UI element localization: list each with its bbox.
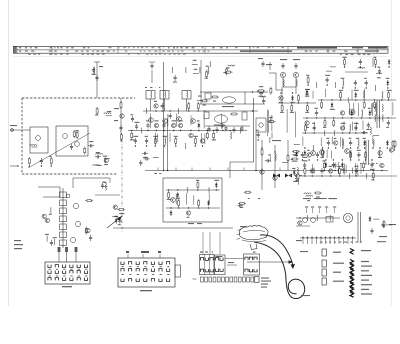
value label [341,78,345,79]
resistor R33 [226,67,228,75]
header row3 text [173,54,175,55]
plug P1 pin [205,269,208,272]
value label [340,169,344,170]
coil L13 [370,127,371,134]
header row3 text [138,54,140,55]
IF bandfilter box [160,91,169,100]
value label [53,237,57,238]
header row3 text [87,54,89,55]
wire [341,138,343,146]
resistor R18 [291,104,293,112]
junction [355,99,356,100]
value label [259,96,263,97]
junction [51,165,52,166]
wire [363,90,365,99]
AGC decoupling capacitor [95,75,98,81]
note text [364,163,366,164]
header row2 text [113,51,115,52]
wire [253,98,255,162]
sound IF bottom wire [200,103,265,105]
wire [345,165,347,174]
value label [96,152,100,153]
junction [333,117,334,118]
value label [356,138,359,139]
sound transformer box [204,112,209,119]
header row1 text [282,47,285,48]
folded wire [43,196,60,198]
junction [298,102,299,103]
header row1 text [220,47,223,48]
output transformer coil [296,79,297,86]
header row1 text [249,47,250,48]
coil L17 [343,139,344,146]
connector lead component [58,247,61,252]
header row2 text [154,51,157,52]
switch section box [60,216,67,222]
value label [349,138,352,139]
sound output tube [215,115,228,123]
resistor R31 [267,121,275,123]
connector lead component [75,247,78,252]
IF amplifier transistor T2 [163,119,168,124]
resistor R10 [206,132,208,140]
value label [49,156,52,157]
transistor T20 [260,170,264,174]
header row1 text [141,47,144,48]
resistor R28 [324,119,326,127]
junction [164,145,165,146]
header table left rule [13,46,15,53]
header row1 text [88,47,90,48]
capacitor C27 [367,122,370,128]
connector B8b pin [121,269,124,272]
video amp transistor [171,198,176,203]
sound IF transformer box [205,93,211,99]
value label [146,120,149,121]
connector B8a outline [45,262,90,284]
wire [197,99,203,101]
wire [324,89,326,97]
terminal comb tick [352,238,354,244]
terminal strip square [247,277,250,282]
wire [355,122,357,130]
capacitor C45 [237,204,243,207]
junction [388,117,389,118]
diode D21 [115,218,118,224]
header text [352,47,363,49]
terminal comb tick [325,238,327,244]
resistor R36 [270,87,272,95]
pin numbering [205,252,208,253]
header row3 text [49,54,52,55]
legend key box 2 [322,260,326,267]
sound IF top wire [200,91,268,93]
resistor R29 [333,119,335,127]
tuner enclosure dashed top [22,97,135,99]
header row2 text [144,51,146,52]
wire [73,177,110,179]
junction [312,175,313,176]
header row3 text [340,54,342,55]
header row3 text [178,54,181,55]
B8b pin mark [152,273,154,276]
junction [329,237,330,238]
wire [104,157,110,159]
wire [351,90,353,100]
tuner ganged-selector line [28,133,90,168]
resistor R45 [339,167,341,175]
junction [338,237,339,238]
AGC feed wire [96,62,98,98]
header row1 text [168,47,170,48]
value label [179,120,183,121]
wire [316,215,318,221]
wire [363,91,365,99]
resistor R52 [292,151,300,153]
junction [175,145,176,146]
resistor R22 [375,58,377,66]
header row3 text [345,54,348,55]
sound detector tube [223,97,236,103]
junction [258,139,259,140]
junction [307,84,308,85]
connector B8b pin [129,269,132,272]
wire [185,67,187,73]
junction [173,130,174,131]
wire [269,72,276,74]
terminal strip lead [193,278,197,280]
legend coil symbol 5 [350,278,354,283]
junction [170,110,171,111]
wire [371,103,373,113]
legend coil text [361,280,369,281]
legend coil text [361,261,369,262]
wire [339,137,341,146]
connector B8a pin [63,271,66,274]
capacitor C24 [354,125,357,131]
value label [213,101,216,102]
plug P1 pin [210,269,213,272]
wire [287,140,289,170]
value label [268,154,271,155]
wire [378,115,380,121]
resistor R15 [201,100,209,102]
transistor T25 [86,228,90,232]
header row1 text [118,47,119,48]
resistor R42 [350,151,352,159]
wire [193,73,199,75]
header row1 text [158,47,160,48]
capacitor C42 [320,168,323,174]
value label [119,213,124,214]
wire [95,194,120,196]
resistor R1 [76,131,78,139]
socket P3 pin [254,257,257,260]
value label [49,214,52,215]
value label [305,89,310,90]
header row1 text [202,47,204,48]
header row1 text [192,47,195,48]
resistor R35 [257,90,265,92]
note text [248,198,250,199]
header row3 text [60,54,63,55]
preset lead [334,208,336,213]
header row2 text [316,51,318,52]
IF bus wire [128,130,247,132]
resistor R9 [131,132,133,140]
preset mark [305,207,308,208]
terminal strip square [230,277,233,282]
bus stub [209,168,211,171]
legend key box 4 [322,278,326,285]
junction [333,159,334,160]
value label [378,67,381,68]
legend fuse text [361,250,371,251]
value label [75,130,79,131]
preset lead [306,208,308,213]
connector B8b pin [159,279,162,282]
main vertical wire [163,62,165,171]
B8b pin mark [160,273,162,276]
legend coil symbol 2 [350,264,354,269]
B8a pin mark [49,275,51,278]
resistor R40 [372,172,374,180]
value label [135,122,140,123]
capacitor C16 [135,124,138,130]
bus stub [279,168,281,171]
connector B8a pin [55,271,58,274]
capacitor C6 [161,103,164,109]
transistor T6 [189,133,193,137]
diode D2 [291,95,294,101]
value label [172,120,176,121]
output transformer coil [283,79,284,86]
wire [240,128,242,134]
connector B8a pin [84,265,87,268]
header row3 text [164,54,166,55]
junction [17,165,18,166]
wire [331,137,333,145]
video stage wire 1 [166,189,220,191]
junction [197,189,198,190]
value label [103,156,107,157]
terminal comb tick [320,238,322,244]
note [99,66,103,67]
wire [342,168,344,174]
IF filter label 1 [145,87,147,88]
header row2 text [310,51,312,52]
value label [374,57,377,58]
header row2 text [193,51,196,52]
B8b pin mark [122,273,124,276]
wire [366,173,368,179]
header row3 text [351,54,354,55]
terminal strip square [251,277,254,282]
switch section box [60,232,67,238]
comb label [296,240,302,241]
capacitor C39 [332,162,335,168]
resistor R6 [96,107,98,115]
connector B8a pin [77,278,80,281]
value label [197,120,200,121]
wire [269,117,271,123]
header code [368,47,387,49]
junction [344,66,345,67]
diode D16 [295,151,298,157]
wire [106,115,112,117]
legend key text [333,281,344,282]
terminal strip square [234,277,237,282]
coil L4 [104,113,111,114]
junction [366,87,367,88]
B8a pin mark [49,268,51,271]
wire [286,109,288,133]
wire [368,140,370,165]
junction [216,189,217,190]
legend key box 3 [322,269,326,276]
set-controls note 3 [329,198,337,199]
junction [29,165,30,166]
value label [291,102,295,103]
wire [373,134,379,136]
value label [326,138,329,139]
resistor R12 [154,137,156,145]
connector B8a pin [70,271,73,274]
B8b pin mark [122,265,124,268]
wire [267,109,269,136]
resistor R53 [291,158,299,160]
switch column wire [62,188,64,248]
transformer core line [357,212,359,242]
video module outline [163,178,222,222]
header column rule [376,46,378,53]
wire [268,110,270,132]
sound output stage top wire [203,110,258,112]
header row1 text [173,47,175,48]
capacitor C8 [146,123,149,129]
value label [206,66,209,67]
wire [269,62,271,70]
wire [164,99,166,111]
header row2 text [81,51,83,52]
line stage wire 2 [303,117,396,119]
resistor R21 [344,58,346,66]
loudspeaker [343,213,352,222]
resistor R25 [363,101,365,109]
wire [145,108,147,114]
B8b pin mark [137,265,139,268]
transistor T17 [310,169,314,173]
video stage wire 2 [166,207,220,209]
wire [149,61,155,63]
header row1 text [35,47,38,48]
junction [188,110,189,111]
value label [203,104,206,105]
IF filter label 1 [150,87,152,88]
lead wire to plug [209,232,211,254]
header column rule [51,46,53,53]
header row2 text [54,51,56,52]
legend numbering [351,242,353,243]
wire [274,145,276,188]
coil L1 [30,145,37,146]
header row1 text [235,47,238,48]
wire [355,163,357,176]
preset lead [312,208,314,213]
header row1 text [123,47,126,48]
connector B8b pin [159,269,162,272]
capacitor C46 [50,240,53,246]
legend fuse symbol 1 [350,249,354,255]
capacitor C43 [355,168,358,174]
junction [339,175,340,176]
junction [302,159,303,160]
header row2 text [66,51,68,52]
value label [368,108,371,109]
B8a pin mark [85,268,87,271]
value label [307,200,310,201]
wire [141,128,143,134]
note text [290,175,291,176]
wire [151,70,153,83]
connector B8a pin [84,271,87,274]
transformer core line [360,212,362,242]
wire [349,103,351,115]
coil L11 [362,109,363,116]
value label [296,180,299,181]
value label [107,111,111,112]
capacitor C3 [88,144,94,147]
header row2 text [203,51,206,52]
AGC note [114,108,119,109]
legend coil symbol 6 [350,283,354,288]
pin numbering [200,252,203,253]
transistor T11 [340,111,344,115]
wire [302,137,304,146]
wire [372,135,374,144]
capacitor C20 [378,69,381,75]
junction [280,92,281,93]
coupling capacitor [281,63,284,69]
switch wafer [70,237,75,242]
junction [188,207,189,208]
diode D1 [198,123,201,129]
coil L10 [382,91,383,98]
frame output bus [295,175,372,177]
wire [209,61,211,67]
switch wafer [75,221,80,226]
header row1 text [57,47,59,48]
junction [321,99,322,100]
junction [326,84,327,85]
value label [334,138,337,139]
wire [167,114,169,126]
B8b pin mark [144,265,146,268]
junction [320,237,321,238]
wire [378,149,380,157]
wire [322,151,324,157]
value label [193,136,198,137]
coil L2 [96,153,103,154]
legend numbering [360,242,362,243]
B8 label [14,240,21,241]
capacitor C17 [131,116,134,122]
junction [322,147,323,148]
header row1 text [226,47,228,48]
RF stage valve [36,136,41,141]
transformer secondary [382,114,383,121]
plug P2 pin [215,269,218,272]
